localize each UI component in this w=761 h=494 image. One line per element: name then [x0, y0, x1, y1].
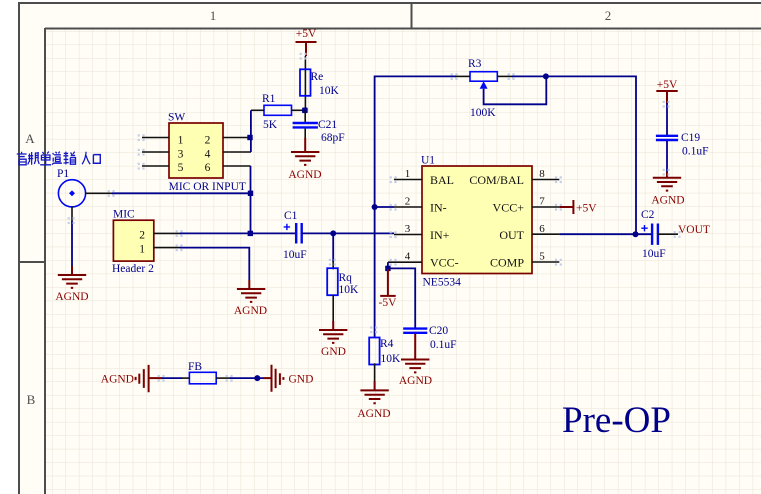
svg-text:COM/BAL: COM/BAL	[469, 173, 524, 187]
svg-text:B: B	[27, 392, 36, 407]
wire P1 to pin6 junction	[85, 192, 113, 194]
wire R1 left lead	[251, 109, 264, 111]
svg-text:8: 8	[539, 168, 545, 180]
wire MIC pin1 to AGND	[180, 248, 249, 280]
ground AGND (FB left, rotated)	[101, 365, 163, 392]
svg-text:VOUT: VOUT	[678, 224, 710, 236]
node junction R3/wiper	[543, 73, 549, 79]
ground AGND (under C20)	[399, 334, 432, 387]
wire C2 to VOUT	[658, 233, 678, 235]
wire main vertical to pin 2	[375, 206, 394, 208]
ferrite bead FB	[162, 361, 231, 384]
node junction FB/GND	[254, 375, 260, 381]
svg-text:0.1uF: 0.1uF	[430, 339, 457, 351]
svg-text:2: 2	[405, 196, 411, 208]
connector MIC Header 2	[112, 209, 154, 276]
MIC pin 1 lead	[154, 247, 181, 249]
wire C19 to AGND	[666, 141, 668, 173]
svg-text:R1: R1	[262, 93, 276, 105]
wire R3 left to main vertical	[375, 76, 456, 208]
wire node to IN+	[333, 232, 394, 234]
svg-text:6: 6	[205, 162, 211, 174]
wire node down to Rq	[332, 233, 334, 262]
svg-text:BAL: BAL	[430, 173, 454, 187]
U1 pin 7	[532, 196, 559, 208]
svg-text:C19: C19	[681, 132, 700, 144]
svg-text:AGND: AGND	[357, 408, 390, 420]
wire R3 right to corner	[512, 76, 636, 234]
svg-text:AGND: AGND	[288, 169, 321, 181]
node junction P1 net	[248, 191, 253, 196]
svg-text:5: 5	[178, 162, 184, 174]
svg-text:10uF: 10uF	[642, 248, 666, 260]
ground AGND (under C21)	[288, 143, 321, 181]
svg-text:5: 5	[539, 251, 545, 263]
power -5V	[379, 268, 398, 309]
svg-text:NE5534: NE5534	[423, 277, 462, 289]
wire C1 to node	[302, 232, 334, 234]
svg-text:P1: P1	[57, 168, 69, 180]
svg-text:C20: C20	[429, 325, 448, 337]
wire Rq to GND	[332, 295, 334, 322]
svg-text:Rq: Rq	[339, 272, 353, 284]
svg-text:R3: R3	[468, 58, 482, 70]
wire OUT to C2 node	[559, 233, 636, 235]
capacitor C21	[293, 110, 345, 144]
wire -5V node to C20	[388, 268, 415, 327]
node junction C1/Rq/IN+	[330, 230, 336, 236]
svg-text:C21: C21	[318, 119, 337, 131]
node junction -5V	[385, 266, 390, 271]
svg-text:-5V: -5V	[379, 297, 398, 309]
svg-text:VCC+: VCC+	[493, 201, 525, 215]
svg-text:IN-: IN-	[430, 201, 447, 215]
node junction pin2/main vertical	[372, 204, 378, 210]
SW pin 2 lead	[223, 137, 248, 139]
wire pin6-net down to MIC junction	[250, 193, 252, 233]
svg-text:2: 2	[139, 230, 145, 242]
node R1/Re/C21 junction	[302, 108, 308, 114]
svg-text:68pF: 68pF	[321, 132, 345, 144]
svg-text:+5V: +5V	[657, 79, 678, 91]
svg-text:100K: 100K	[470, 107, 496, 119]
SW pin 1 stub	[142, 137, 169, 139]
resistor R1	[262, 93, 292, 131]
SW pin 5 stub	[142, 165, 169, 167]
capacitor C1	[283, 210, 307, 261]
svg-text:4: 4	[205, 149, 211, 161]
svg-text:VCC-: VCC-	[430, 256, 459, 270]
capacitor C20	[403, 325, 456, 351]
svg-text:FB: FB	[188, 361, 202, 373]
svg-text:6: 6	[539, 223, 545, 235]
net label 音频单道输入口 (pseudo CJK strokes)	[17, 152, 101, 165]
capacitor C19	[656, 132, 709, 158]
ground GND (under Rq)	[319, 321, 347, 358]
svg-text:+5V: +5V	[296, 28, 317, 40]
svg-text:7: 7	[539, 196, 545, 208]
svg-text:0.1uF: 0.1uF	[682, 146, 709, 158]
svg-text:3: 3	[178, 149, 184, 161]
svg-text:GND: GND	[289, 374, 314, 386]
node junction OUT/C2	[633, 231, 639, 237]
ground GND (FB right, rotated)	[272, 365, 314, 392]
wire R1 right lead	[292, 109, 305, 111]
endpoint grid markers (decorative)	[68, 53, 681, 382]
ground AGND (under MIC pin1)	[234, 280, 267, 317]
R3 right lead	[497, 75, 513, 77]
svg-text:C1: C1	[284, 210, 298, 222]
svg-text:MIC: MIC	[113, 209, 135, 221]
wire pin4 to -5V node	[387, 262, 389, 268]
svg-text:AGND: AGND	[101, 374, 134, 386]
MIC pin 2 lead	[154, 232, 181, 234]
wire MIC pin2 to C1	[180, 232, 296, 234]
resistor Rq	[327, 268, 359, 296]
svg-text:+5V: +5V	[576, 203, 597, 215]
svg-text:10K: 10K	[319, 85, 340, 97]
ground AGND (under C19)	[651, 172, 684, 207]
wire node to C2	[636, 233, 653, 235]
connector P1	[57, 168, 86, 207]
SW pin 4 lead	[223, 151, 251, 153]
svg-text:Header 2: Header 2	[112, 263, 154, 275]
U1 pin 4	[388, 251, 422, 263]
wire FB to GND	[230, 377, 263, 379]
wire +5V to Re	[304, 56, 306, 110]
connector SW (MIC OR INPUT)	[168, 112, 223, 179]
power +5V (above C19)	[656, 79, 678, 104]
resistor Re	[300, 69, 340, 97]
wire R1 to SW pins 2,4	[250, 110, 252, 152]
svg-text:4: 4	[405, 251, 411, 263]
resistor R4	[369, 337, 401, 365]
svg-text:3: 3	[405, 223, 411, 235]
svg-text:OUT: OUT	[499, 228, 524, 242]
svg-text:2: 2	[205, 135, 211, 147]
svg-text:AGND: AGND	[55, 291, 88, 303]
potentiometer R3	[468, 58, 497, 119]
svg-text:1: 1	[405, 168, 411, 180]
wire main vertical to R4	[374, 207, 376, 338]
U1 pin 2	[394, 196, 422, 208]
svg-text:SW: SW	[168, 112, 185, 124]
ground AGND (under P1)	[55, 266, 88, 303]
U1 pin 6	[532, 223, 559, 235]
svg-text:MIC OR INPUT: MIC OR INPUT	[169, 181, 246, 193]
R3 left lead	[455, 75, 470, 77]
svg-text:10K: 10K	[381, 353, 402, 365]
svg-text:C2: C2	[641, 209, 655, 221]
U1 pin 8	[532, 168, 559, 180]
wire R4 to AGND	[374, 363, 376, 382]
svg-text:AGND: AGND	[234, 305, 267, 317]
svg-text:Re: Re	[311, 71, 324, 83]
wire P1 down to AGND	[71, 206, 73, 222]
svg-text:U1: U1	[421, 155, 435, 167]
svg-text:A: A	[25, 131, 35, 146]
svg-text:10K: 10K	[339, 284, 360, 296]
SW pin 6 lead	[223, 165, 251, 167]
SW pin 3 stub	[142, 151, 169, 153]
wire R3 wiper loop	[484, 77, 547, 104]
svg-text:R4: R4	[380, 338, 394, 350]
U1 pin 3	[394, 223, 422, 235]
wire +5V to C19	[666, 103, 668, 135]
power +5V (at pin 7)	[559, 200, 597, 215]
svg-text:COMP: COMP	[490, 256, 524, 270]
node junction SW pin2	[247, 135, 252, 140]
svg-text:1: 1	[178, 135, 184, 147]
U1 pin 1	[394, 168, 422, 180]
svg-text:GND: GND	[321, 346, 346, 358]
svg-text:AGND: AGND	[651, 195, 684, 207]
svg-text:Pre-OP: Pre-OP	[562, 400, 671, 441]
svg-text:1: 1	[210, 8, 217, 23]
node junction MIC/C1	[248, 231, 253, 236]
capacitor C2	[641, 209, 666, 260]
power +5V (top, above Re)	[296, 28, 317, 56]
svg-text:AGND: AGND	[399, 375, 432, 387]
wire SW pin6 down to P1 net	[250, 166, 252, 193]
svg-text:2: 2	[605, 8, 612, 23]
opamp U1 NE5534	[421, 155, 532, 289]
svg-text:1: 1	[139, 244, 145, 256]
U1 pin 5	[532, 251, 559, 263]
svg-text:5K: 5K	[263, 119, 278, 131]
ground AGND (under R4)	[357, 381, 390, 420]
svg-text:10uF: 10uF	[283, 249, 307, 261]
svg-text:IN+: IN+	[430, 228, 450, 242]
